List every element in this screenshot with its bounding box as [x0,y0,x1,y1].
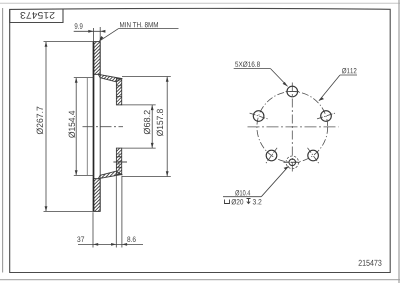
bolt hole upper-right [317,111,335,122]
bolt hole edges in hat, top half [116,85,121,87]
dim 37 line [78,243,143,245]
bolt hole centermark in hat bottom [113,161,127,163]
dim 37 text [77,236,84,242]
dim 154.4 text [68,111,75,138]
bolt hole lower-right [308,148,319,163]
hat cylinder section bottom (hatched) [116,148,121,174]
dim 37 / 8.6 extensions [92,212,94,247]
small hole bottom (pin hole) [284,156,302,169]
bolt hole lower-left [266,148,277,163]
bolt hole top [287,86,298,97]
dim 157.8 extension top [122,76,171,78]
bolt circle (dash-dot) [257,92,328,163]
dim 8.6 arrow [122,243,127,246]
dim 267.7 line [45,42,47,212]
dim 157.8 extension bottom [122,176,171,178]
counterbore symbol [225,200,230,204]
dim 68.2 line [151,105,153,148]
scan edge bottom [0,279,400,281]
web section top (hatched) [98,74,122,82]
dim 157.8 text [157,109,164,136]
dim 9.9 extension left [93,28,95,42]
horizontal centerline [248,126,339,128]
title box top-left [10,9,63,23]
depth symbol [247,199,251,204]
part number 215473 (rotated 180) [20,12,54,19]
dim 8.6 text [127,236,135,242]
label d10.4 [235,190,250,196]
dim 154.4 extension top [74,77,94,79]
vertical centerline [291,83,293,173]
bolt hole upper-left [250,111,268,122]
hat cylinder section top (hatched) [116,79,121,105]
dim 267.7 text [36,107,43,135]
inner faint vertical line [86,78,88,176]
web section bottom (hatched) [98,171,122,179]
scan edge top [0,2,400,4]
dim 154.4 extension bottom [74,174,94,176]
part number bottom right [359,260,382,266]
scan edge left [2,8,4,273]
friction ring section bottom (hatched) [64,179,131,212]
friction ring section top (hatched) [64,42,131,75]
dim 68.2 extension bottom [122,147,156,149]
dim 9.9 line [74,30,102,32]
scan edge right [398,0,400,283]
dim 154.4 line [75,78,77,176]
label 5X d16.8 [235,61,260,67]
dim 68.2 extension top [122,104,156,106]
dim 68.2 text [144,110,151,134]
dim 157.8 line [166,77,168,177]
centerline left view [83,126,124,128]
dim 9.9 text [75,23,83,29]
bolt hole edges in hat, bottom half [116,156,121,158]
MIN TH. 8MM label [120,22,158,27]
dim 267.7 extension top [44,41,101,43]
dim 267.7 extension bottom [44,210,101,212]
label d112 [342,68,356,74]
dim 9.9 extension right [99,27,101,42]
inboard face line [99,42,101,212]
outboard face thick line [93,42,95,212]
